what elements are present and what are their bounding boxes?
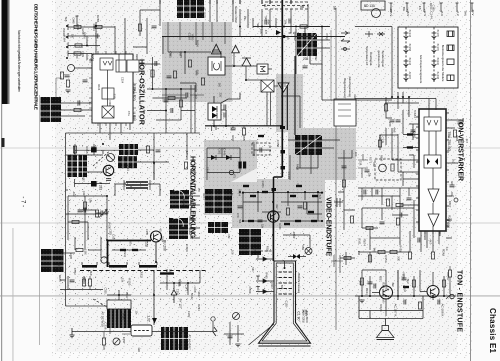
ic pin ticks [89,51,136,126]
svg-text:BC148: BC148 [408,30,411,38]
svg-text:470: 470 [82,277,86,282]
caps cluster [231,128,236,130]
driver transistor U281 [103,165,113,175]
capacitor [78,101,80,106]
driver stage wires [68,196,107,240]
top small box [361,1,385,10]
grey region video ic [288,128,356,180]
svg-text:470: 470 [264,30,267,35]
fold line upper [0,148,500,149]
base rail [355,295,456,297]
spark gap [213,327,217,336]
diode pair [293,254,300,259]
svg-text:+12 V: +12 V [423,9,427,17]
cluster left of U600 [358,188,419,210]
svg-text:Chassis E1: Chassis E1 [488,308,497,354]
heavy winding bar 1 [82,265,97,268]
wire delay to crt [152,322,213,332]
svg-text:C648: C648 [71,17,74,24]
svg-text:BF179: BF179 [436,44,439,52]
svg-text:C607: C607 [270,282,274,289]
T528 transistor [151,231,162,242]
svg-text:560: 560 [251,267,254,272]
capacitor [380,222,385,224]
transistor leads [372,285,433,316]
svg-text:R164: R164 [63,35,67,42]
component cluster top [253,26,330,28]
svg-text:U 281: U 281 [99,182,103,191]
svg-text:VIDEO-ENDSTUFE: VIDEO-ENDSTUFE [325,197,332,256]
svg-text:Regelspannung: Regelspannung [343,78,347,98]
main horizontal bus [253,26,330,28]
video left grey parts [207,148,240,180]
resistor [386,199,389,206]
svg-text:R627: R627 [191,215,195,222]
tba internal wires [429,131,436,231]
svg-text:AC187: AC187 [408,72,411,80]
bottom rail [72,328,131,335]
svg-text:C693: C693 [92,24,96,32]
dashed link top [262,5,308,7]
grey region video lower-left [204,182,234,215]
svg-text:47u: 47u [197,188,200,193]
tba inner box a [424,117,441,131]
section frame left thin [39,95,41,345]
svg-text:Bestückungsseite der Module: Bestückungsseite der Module [441,45,445,82]
svg-text:330: 330 [70,34,74,39]
crt left lower parts [224,322,244,345]
top transistor [372,9,381,18]
resistor [179,100,182,107]
main vertical bus continue [274,177,283,261]
svg-text:Bildrohr-Fassung: Bildrohr-Fassung [297,273,301,293]
resistor [74,52,81,55]
svg-text:47u: 47u [406,110,410,115]
svg-text:220: 220 [177,282,181,287]
resistors in grey [188,60,191,67]
svg-text:1u: 1u [88,101,92,105]
resistor [184,162,187,169]
output transistor left [380,286,393,299]
svg-text:R458: R458 [122,337,126,344]
svg-text:C601: C601 [205,167,209,174]
svg-text:560: 560 [217,83,221,88]
svg-text:470: 470 [358,281,362,286]
grey region video output [232,179,325,228]
test point row [390,3,474,12]
input rails [68,24,115,60]
module block yoke lower [169,218,188,239]
svg-text:R104: R104 [97,84,100,91]
svg-text:120: 120 [129,184,133,189]
pot resistor [391,164,394,171]
svg-text:6k8: 6k8 [89,271,93,276]
mult box [261,80,274,92]
svg-text:C524: C524 [318,193,322,200]
ic inner box d multiplier [102,106,114,118]
svg-text:8k2: 8k2 [314,57,317,62]
ground [235,344,240,347]
resistor blob [91,181,97,187]
svg-text:R258: R258 [85,146,89,154]
svg-text:AC 188 K: AC 188 K [441,304,445,317]
small transistor [101,257,107,263]
svg-text:220: 220 [388,122,392,127]
svg-text:R264: R264 [429,3,433,10]
TBA750 IC box [419,109,446,231]
svg-text:R292: R292 [121,313,125,320]
capacitor [376,190,378,195]
module block yoke upper [170,190,189,209]
svg-text:100: 100 [231,250,235,255]
heavy winding bar 4 [160,272,174,274]
svg-text:R465: R465 [265,272,269,279]
capacitor [167,76,172,78]
svg-text:C446: C446 [222,148,226,156]
svg-text:8k2: 8k2 [406,279,410,284]
svg-text:R674: R674 [363,239,367,247]
capacitor [171,108,173,113]
caps left of IC [396,120,401,122]
svg-text:C636: C636 [111,234,115,241]
svg-text:R161: R161 [357,238,360,245]
svg-text:6k8: 6k8 [373,248,377,253]
module block video c [239,229,261,255]
scan edge dash [2,138,5,147]
capacitor [92,147,97,149]
svg-text:47u: 47u [127,111,131,116]
resistor [74,108,81,111]
svg-text:C640: C640 [413,131,417,139]
video out wires [243,193,322,221]
dashed box small [252,143,270,155]
ic right outputs [446,120,460,220]
svg-text:C634: C634 [413,111,417,119]
volume pot dashed box [375,159,401,180]
amp triangle [211,44,221,54]
capacitor [152,26,157,28]
resistor [378,140,381,147]
svg-text:C355: C355 [276,140,280,148]
svg-text:DEUTSCHE PHILIPS GMBH, HAMBURG: DEUTSCHE PHILIPS GMBH, HAMBURG 1, SERVIC… [33,4,38,110]
svg-text:98: 98 [300,5,304,9]
svg-text:BC148: BC148 [408,58,411,66]
sum box [257,64,268,74]
svg-text:R249: R249 [441,249,445,257]
resistor [73,146,76,153]
svg-text:235: 235 [303,57,309,61]
pot transistor [379,164,387,172]
left lower components [56,78,62,97]
svg-text:R366: R366 [381,282,384,289]
junction dots [152,88,183,112]
heavy drive wire [108,240,152,242]
svg-text:BF178: BF178 [436,30,439,38]
svg-text:470: 470 [253,248,256,253]
vco box [208,57,225,75]
svg-text:+225 V: +225 V [389,7,393,16]
vertical feeds [362,270,398,300]
capacitor [411,130,416,132]
capacitor [78,210,83,212]
svg-text:470: 470 [276,31,279,36]
transistor input [68,65,75,72]
svg-text:C338: C338 [381,137,385,144]
out terminal [450,294,454,298]
svg-text:C192: C192 [285,301,289,308]
crt pin wires [256,254,274,294]
svg-text:18k: 18k [89,198,93,203]
module block video grid [295,135,322,155]
wire junction dots [66,25,445,297]
dashed link [239,250,274,252]
svg-text:gemessen bei: gemessen bei [377,51,381,69]
svg-text:Gleichspannungswerte: Gleichspannungswerte [419,55,423,84]
svg-text:8k2: 8k2 [391,283,394,288]
ground [65,90,70,93]
capacitor [84,208,86,213]
module block left big b [79,155,88,177]
svg-text:18k: 18k [284,20,288,25]
lamp [305,248,312,255]
svg-text:-30 V: -30 V [471,9,475,16]
lower left parts [60,276,103,290]
module block top connector [177,0,204,18]
ic internal spine wire [108,54,120,106]
coil symbol [107,154,115,162]
grey region oscillator IC [162,22,232,102]
svg-text:C1 90°: C1 90° [296,311,300,322]
diode [211,155,216,160]
svg-text:3n3: 3n3 [194,95,197,100]
svg-text:R344: R344 [278,223,282,230]
svg-text:C500: C500 [248,287,252,294]
legend symbol pair 2 [365,31,385,37]
svg-text:100: 100 [354,152,358,157]
svg-text:R323: R323 [140,272,144,279]
svg-text:C335: C335 [103,288,107,295]
svg-text:Oszillograf: Oszillograf [369,52,373,65]
components row [408,252,411,259]
video right small parts [334,198,343,207]
svg-text:C463: C463 [108,100,111,107]
svg-text:Netzteil 220V: Netzteil 220V [234,6,238,23]
module block flyback [107,309,131,328]
hor section inner wires [66,144,108,250]
capacitor [407,198,412,200]
trimmer cap [101,211,103,216]
svg-text:Zeilen-Abl.-Spulen: Zeilen-Abl.-Spulen [189,183,193,205]
tba inner box b [424,155,441,168]
svg-text:1k2: 1k2 [275,204,279,209]
svg-text:47u: 47u [168,51,172,56]
svg-text:C353: C353 [384,255,388,263]
svg-text:R186: R186 [58,275,62,282]
svg-text:R680: R680 [191,34,194,41]
resistor [95,25,102,28]
resistor [75,44,82,47]
svg-text:C542: C542 [73,268,77,275]
heavy winding bar 2 [109,265,127,268]
svg-text:R576: R576 [446,272,450,280]
svg-text:R472: R472 [60,254,64,262]
more resistors video out [243,185,249,187]
resistor [350,216,353,223]
grey region vertical feeds [168,22,225,52]
svg-text:1u: 1u [211,49,215,53]
svg-text:C144: C144 [430,11,434,19]
cluster right of osc ic [133,54,195,133]
resistor [384,104,387,111]
resistor [396,218,399,225]
svg-text:R560: R560 [292,232,296,239]
svg-text:C645: C645 [179,51,183,58]
tba750 pin ticks [416,113,449,234]
svg-text:0,1: 0,1 [445,247,449,251]
svg-text:C282: C282 [187,311,191,318]
svg-text:R576: R576 [82,32,86,39]
svg-text:R255: R255 [96,15,100,23]
svg-text:R513: R513 [126,165,130,172]
scan edge black bar [2,0,8,104]
svg-text:1k2: 1k2 [451,159,455,164]
resistor [74,25,81,28]
video ic block wires [281,96,340,180]
legend box contents [404,27,454,82]
capacitor [83,80,88,82]
resistor [138,24,141,31]
wires right of bus [284,27,330,101]
crt gun pin [284,261,286,267]
svg-text:120: 120 [105,211,108,216]
svg-text:R617: R617 [197,292,200,299]
resistor stack [173,71,176,78]
capacitor [96,34,98,39]
capacitor [65,75,70,77]
svg-text:R134: R134 [403,286,407,293]
svg-text:5k6: 5k6 [238,219,241,224]
resistor [151,70,154,77]
capacitor [164,100,169,102]
svg-text:4k7: 4k7 [465,139,469,144]
ic inner box c [102,88,114,99]
svg-text:1k2: 1k2 [72,192,76,197]
wires to yoke blocks [189,196,200,238]
svg-text:R224: R224 [365,288,369,295]
svg-text:R607: R607 [448,201,452,208]
dense parts left of tba750 [380,97,419,168]
component value labels (illegible in scan) [57,3,469,353]
svg-text:R424: R424 [379,304,383,312]
svg-text:R353: R353 [91,55,95,62]
module block video b [208,222,228,233]
output transistor right [427,286,439,298]
svg-text:470: 470 [236,213,240,218]
grey region center [276,74,303,132]
upper white box [107,300,131,309]
svg-text:15k: 15k [227,234,231,239]
tba amp 2 [428,214,439,226]
wires left of ic [392,110,419,186]
speaker [377,326,395,340]
transformer windings [124,180,150,190]
svg-text:5k6: 5k6 [256,23,260,28]
svg-text:120: 120 [137,347,141,352]
crt electrodes [279,272,292,294]
wire to IC [74,18,125,68]
legend area frame [330,30,332,100]
svg-text:C310: C310 [175,289,179,296]
resistors video [286,208,289,215]
svg-text:AT 1025: AT 1025 [203,7,207,18]
svg-text:0 V: 0 V [456,12,460,16]
resistor chain [120,249,126,251]
main vertical bus thick [281,0,283,177]
svg-text:220: 220 [219,93,223,98]
bus junction blobs [280,126,285,129]
module block left big a [68,155,78,177]
svg-text:R656: R656 [195,40,199,48]
resistor [342,180,345,187]
wire drops from top [240,9,296,37]
svg-text:Spitzenwert mit: Spitzenwert mit [365,46,369,65]
svg-text:1n5: 1n5 [357,251,361,256]
transformer leads [115,184,160,196]
svg-text:TON - ENDSTUFE: TON - ENDSTUFE [456,270,463,332]
svg-text:R571: R571 [368,157,372,164]
fold line middle [0,223,500,224]
video transistor [268,211,279,222]
svg-text:C336: C336 [103,322,107,330]
drive triangle down [278,83,289,92]
dashed diag to crt [93,299,108,308]
capacitor [400,213,402,218]
capacitor [364,190,366,195]
svg-text:R696: R696 [380,155,383,162]
svg-text:R439: R439 [399,245,403,252]
svg-text:+6 V: +6 V [440,10,444,16]
flyback core dashed [80,270,207,272]
bus arrow [276,30,281,35]
resistor [95,210,98,217]
svg-text:10n: 10n [259,29,262,34]
svg-text:C433: C433 [325,33,329,40]
grey region video left [204,140,257,182]
svg-text:R396: R396 [265,246,269,253]
svg-text:SR: SR [333,6,337,11]
resistor [83,202,86,209]
svg-text:47u: 47u [128,241,132,246]
diode box [208,103,221,120]
svg-text:C383: C383 [109,229,112,235]
vertical line mid [154,36,187,180]
crt funnel [259,261,311,346]
tba area bottom wires [400,205,440,252]
svg-text:33k: 33k [353,94,357,99]
small parts [360,278,363,285]
resistor [146,146,149,153]
svg-text:C349: C349 [76,24,79,31]
winding taps [82,262,167,272]
resistor [396,203,403,206]
diag line crt [249,324,275,345]
svg-text:TBA 750 SQ: TBA 750 SQ [447,131,451,151]
svg-text:R244: R244 [202,193,206,200]
grey region wires [168,51,278,92]
second bus [162,36,345,38]
svg-text:47u: 47u [123,182,127,187]
parts right of ic [453,130,456,137]
